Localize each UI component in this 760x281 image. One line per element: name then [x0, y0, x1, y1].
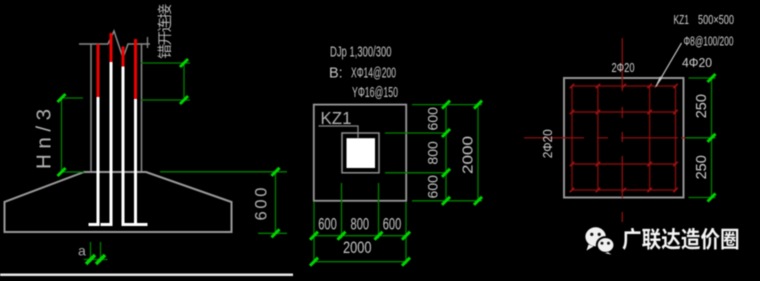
svg-text:4Φ20: 4Φ20 — [682, 55, 712, 70]
svg-text:B:: B: — [329, 66, 343, 82]
svg-text:Φ8@100/200: Φ8@100/200 — [684, 34, 734, 49]
svg-text:KZ1: KZ1 — [321, 108, 352, 128]
svg-text:KZ1: KZ1 — [674, 12, 690, 27]
svg-text:YΦ16@150: YΦ16@150 — [352, 85, 398, 101]
svg-text:2Φ20: 2Φ20 — [612, 60, 635, 75]
svg-text:XΦ14@200: XΦ14@200 — [351, 66, 396, 82]
svg-text:2000: 2000 — [343, 238, 372, 257]
svg-text:600: 600 — [383, 216, 402, 234]
svg-text:800: 800 — [425, 141, 441, 165]
svg-text:800: 800 — [351, 216, 370, 234]
svg-text:a: a — [78, 243, 86, 259]
svg-text:Hn/3: Hn/3 — [33, 109, 56, 169]
svg-text:600: 600 — [425, 107, 441, 131]
svg-text:250: 250 — [694, 155, 710, 179]
svg-text:500×500: 500×500 — [698, 12, 734, 27]
svg-text:600: 600 — [425, 175, 441, 199]
svg-text:250: 250 — [694, 94, 710, 118]
svg-text:2Φ20: 2Φ20 — [541, 129, 555, 158]
svg-text:600: 600 — [318, 216, 337, 234]
svg-text:DJp 1,300/300: DJp 1,300/300 — [330, 45, 392, 61]
svg-text:600: 600 — [253, 188, 271, 221]
svg-text:2000: 2000 — [460, 136, 477, 174]
